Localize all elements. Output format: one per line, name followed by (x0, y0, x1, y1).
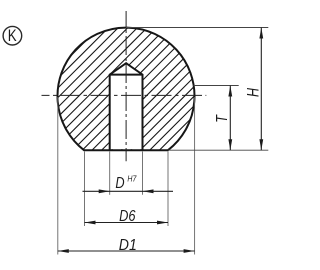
ball outline (57, 28, 194, 151)
dimension line T (229, 86, 231, 151)
horizontal centerline (42, 94, 207, 96)
dimension line D1 (58, 250, 195, 252)
hole outline (110, 63, 143, 150)
extension line D right (142, 152, 144, 195)
T top reference line (194, 85, 239, 87)
vertical centerline (125, 11, 127, 161)
extension line D6 left (84, 152, 86, 227)
extension line D1 left (57, 97, 59, 255)
extension line D1 right (194, 97, 196, 255)
svg-text:D: D (115, 175, 125, 192)
extension line D left (109, 152, 111, 195)
H top reference line (126, 27, 268, 29)
bottom reference line (168, 149, 268, 151)
svg-text:D6: D6 (119, 208, 135, 225)
extension line D6 right (167, 152, 169, 227)
svg-text:K: K (8, 27, 17, 45)
dimension line D (83, 190, 174, 192)
svg-text:H: H (245, 88, 263, 97)
dimension line H (260, 28, 262, 151)
svg-text:T: T (214, 114, 231, 123)
svg-text:D1: D1 (119, 237, 137, 254)
hole fill (110, 63, 143, 149)
K symbol circle (3, 26, 22, 45)
dimension line D6 (85, 222, 169, 224)
svg-text:H7: H7 (127, 175, 136, 184)
